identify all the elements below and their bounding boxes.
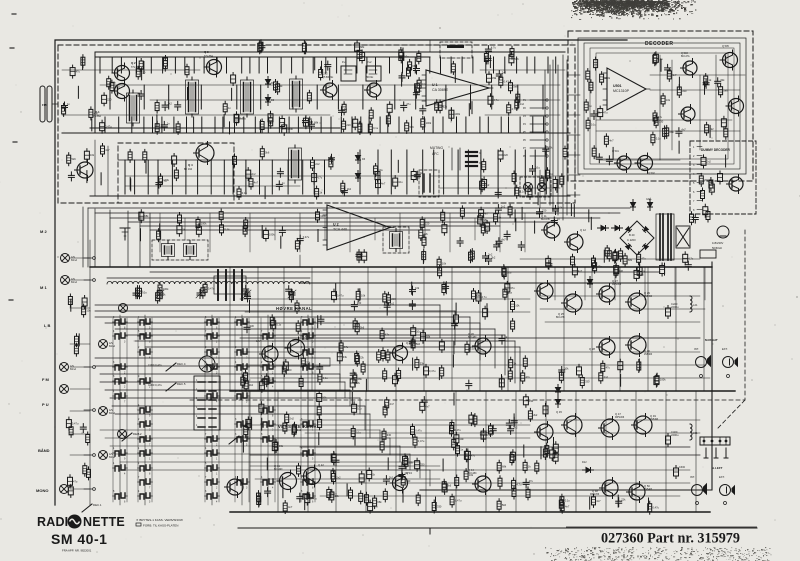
wire — [474, 218, 476, 240]
wire — [539, 170, 541, 208]
capacitor — [613, 252, 618, 260]
resistor — [295, 241, 299, 249]
capacitor — [606, 158, 612, 160]
wire — [94, 140, 96, 196]
svg-text:Fv2: Fv2 — [367, 60, 372, 64]
transistor Q2a T/S88A — [115, 66, 130, 81]
resistor — [667, 71, 671, 79]
capacitor — [376, 180, 381, 188]
resistor — [317, 407, 321, 415]
capacitor — [718, 174, 723, 182]
capacitor — [162, 104, 168, 106]
svg-text:5k6: 5k6 — [502, 503, 507, 507]
resistor — [101, 146, 105, 154]
resistor — [523, 462, 527, 470]
svg-text:10k: 10k — [564, 367, 569, 371]
capacitor — [265, 490, 271, 492]
IF transformer L2 — [186, 80, 199, 114]
transistor Q49 2N5496 — [634, 416, 652, 434]
resistor — [413, 437, 417, 445]
svg-text:2k2: 2k2 — [168, 102, 173, 106]
resistor — [411, 427, 415, 435]
resistor — [516, 94, 520, 102]
wire — [156, 115, 158, 127]
wire — [234, 117, 236, 133]
svg-text:BC148C: BC148C — [468, 337, 477, 339]
wire — [351, 117, 353, 133]
wire — [140, 229, 142, 241]
resistor — [665, 128, 669, 136]
wire — [249, 57, 251, 73]
capacitor — [403, 456, 408, 464]
capacitor — [485, 48, 491, 50]
svg-text:4n7: 4n7 — [508, 291, 513, 295]
switch contact — [115, 320, 119, 325]
svg-text:4,7u: 4,7u — [482, 295, 488, 299]
wire — [267, 117, 269, 133]
wire — [346, 484, 348, 496]
wire — [250, 465, 440, 467]
switch contact — [263, 379, 267, 384]
wire — [70, 299, 72, 311]
wire — [203, 57, 205, 73]
capacitor — [454, 315, 459, 323]
transistor Q4 BF194 — [196, 144, 214, 162]
capacitor — [303, 118, 308, 126]
wire — [300, 419, 700, 421]
resistor — [637, 362, 641, 370]
capacitor — [483, 309, 488, 317]
capacitor — [80, 426, 86, 428]
resistor — [584, 102, 588, 110]
capacitor — [246, 419, 251, 427]
wire — [242, 440, 244, 452]
capacitor — [616, 500, 622, 502]
wire — [223, 160, 225, 194]
capacitor — [572, 267, 577, 275]
resistor — [75, 336, 79, 344]
svg-text:68k: 68k — [377, 500, 382, 504]
capacitor — [496, 240, 502, 242]
resistor — [405, 123, 409, 131]
resistor — [560, 176, 564, 184]
decoder extra wires — [596, 119, 732, 121]
resistor — [244, 381, 248, 389]
wire — [317, 230, 319, 242]
svg-text:68k: 68k — [628, 258, 633, 262]
resistor — [594, 60, 598, 68]
transistor Q41 BC149C — [280, 473, 297, 490]
DEC arrows — [166, 363, 176, 371]
switch contact — [207, 334, 211, 339]
resistor — [507, 105, 511, 113]
resistor — [353, 321, 357, 329]
wire — [320, 495, 680, 497]
svg-text:33k: 33k — [720, 78, 725, 82]
wire — [467, 457, 469, 469]
svg-text:220: 220 — [542, 208, 547, 212]
wire — [261, 418, 263, 430]
capacitor — [339, 109, 345, 111]
resistor — [243, 226, 247, 234]
DUMMY DECODER dashed box — [690, 141, 756, 214]
svg-text:MONO: MONO — [36, 488, 48, 493]
resistor — [623, 256, 627, 264]
wire — [453, 342, 455, 354]
capacitor — [357, 50, 362, 58]
switch contact — [207, 320, 211, 325]
capacitor — [506, 422, 512, 424]
svg-text:33k: 33k — [308, 117, 313, 121]
wire — [118, 117, 120, 133]
svg-text:47u: 47u — [385, 333, 390, 337]
routing band4 lower left — [100, 429, 380, 431]
capacitor — [297, 496, 303, 498]
svg-text:4n7: 4n7 — [578, 269, 583, 273]
wire — [387, 458, 389, 470]
wire — [457, 150, 459, 194]
wire — [320, 117, 322, 133]
resistor — [383, 294, 387, 302]
svg-text:0,1u: 0,1u — [470, 346, 476, 350]
resistor — [329, 159, 333, 167]
svg-text:FM: FM — [42, 103, 47, 107]
switch contact — [207, 365, 211, 370]
capacitor — [312, 174, 317, 182]
svg-text:2k2: 2k2 — [347, 187, 352, 191]
wire — [335, 391, 337, 512]
mains plug — [717, 226, 729, 238]
resistor — [528, 189, 532, 197]
resistor — [386, 295, 390, 303]
resistor — [156, 293, 160, 301]
capacitor — [263, 231, 268, 239]
capacitor — [245, 295, 251, 297]
svg-text:Q 1: Q 1 — [95, 110, 100, 114]
wire — [325, 57, 327, 73]
svg-text:10k: 10k — [558, 206, 563, 210]
resistor — [452, 439, 456, 447]
resistor — [332, 455, 336, 463]
svg-text:M 2: M 2 — [40, 229, 47, 234]
resistor — [355, 324, 359, 332]
transistor Q5 — [323, 83, 337, 97]
wire — [605, 391, 607, 512]
wire — [465, 117, 467, 133]
capacitor — [442, 484, 447, 492]
wire — [479, 267, 481, 391]
wire — [573, 205, 575, 217]
wire — [315, 482, 690, 484]
wire — [617, 495, 619, 507]
capacitor — [457, 240, 463, 242]
amp main buses — [230, 390, 735, 392]
resistor — [442, 482, 446, 490]
capacitor — [283, 362, 288, 370]
svg-text:5k6: 5k6 — [410, 125, 415, 129]
wire — [422, 150, 424, 194]
svg-text:2k2: 2k2 — [485, 183, 490, 187]
svg-text:100k: 100k — [201, 222, 207, 226]
resistor — [359, 493, 363, 501]
resistor — [330, 492, 334, 500]
svg-text:115/230V: 115/230V — [712, 241, 724, 245]
wire — [249, 391, 251, 512]
wire — [487, 117, 489, 133]
resistor — [138, 288, 142, 296]
resistor — [510, 455, 514, 463]
resistor — [382, 431, 386, 439]
svg-text:Fv1: Fv1 — [342, 60, 347, 64]
wire — [429, 57, 431, 73]
wire — [563, 267, 565, 391]
wire — [186, 117, 188, 133]
wire — [504, 57, 506, 73]
switch contact — [140, 466, 144, 471]
svg-text:5k6: 5k6 — [265, 151, 270, 155]
wire — [375, 57, 377, 73]
svg-text:4n7: 4n7 — [240, 116, 245, 120]
capacitor — [350, 372, 356, 374]
capacitor — [177, 226, 182, 234]
resistor — [74, 346, 78, 354]
switch contact — [207, 480, 211, 485]
switch contact — [207, 451, 211, 456]
wire — [575, 391, 577, 512]
svg-text:Q 4: Q 4 — [188, 163, 193, 167]
resistor — [592, 497, 596, 505]
capacitor — [368, 503, 373, 511]
resistor — [385, 400, 389, 408]
transistor Q48 MPSU56 — [602, 480, 618, 496]
wire — [412, 358, 414, 370]
wire — [513, 414, 515, 426]
capacitor — [559, 369, 565, 371]
wire — [398, 117, 400, 133]
resistor — [374, 166, 378, 174]
svg-text:0,1u: 0,1u — [332, 492, 338, 496]
wire — [542, 85, 544, 109]
capacitor — [317, 394, 322, 402]
wire — [152, 117, 154, 133]
capacitor — [272, 443, 277, 451]
wire — [302, 57, 304, 73]
capacitor — [276, 183, 282, 185]
wire — [423, 117, 425, 133]
resistor — [601, 363, 605, 371]
resistor — [401, 477, 405, 485]
transformer L1 — [127, 93, 140, 123]
resistor — [455, 478, 459, 486]
capacitor — [487, 74, 492, 82]
resistor — [68, 297, 72, 305]
transistor Q29 2N5496 — [628, 293, 646, 311]
svg-text:0,47u: 0,47u — [429, 369, 436, 373]
resistor — [619, 251, 623, 259]
wire — [523, 445, 525, 457]
wire — [639, 263, 641, 275]
wire — [314, 58, 316, 70]
wire — [70, 433, 90, 435]
wire — [339, 267, 341, 391]
resistor — [512, 480, 516, 488]
wire — [145, 161, 147, 173]
resistor — [422, 237, 426, 245]
resistor — [523, 358, 527, 366]
wire — [524, 213, 526, 252]
svg-text:DECODER: DECODER — [645, 41, 674, 47]
wire — [359, 289, 361, 301]
capacitor — [469, 415, 474, 423]
wire — [210, 160, 212, 194]
wire — [305, 432, 700, 434]
left column wires — [89, 240, 91, 505]
switch contact — [115, 365, 119, 370]
wire — [288, 117, 290, 133]
resistor — [174, 170, 178, 178]
wire — [109, 85, 111, 109]
svg-text:220: 220 — [504, 153, 509, 157]
resistor — [637, 254, 641, 262]
resistor — [469, 252, 473, 260]
capacitor — [553, 208, 559, 210]
capacitor — [367, 471, 372, 479]
capacitor — [325, 64, 331, 66]
capacitor — [485, 57, 491, 59]
resistor — [450, 497, 454, 505]
wire — [214, 117, 216, 133]
wire — [78, 334, 80, 346]
wire — [300, 318, 302, 502]
switch contact — [303, 480, 307, 485]
wire — [174, 57, 176, 73]
capacitor — [360, 53, 365, 61]
wire — [161, 117, 163, 133]
capacitor — [449, 110, 454, 118]
resistor — [651, 135, 655, 143]
wire — [379, 117, 381, 133]
svg-text:MUTING: MUTING — [430, 146, 443, 150]
svg-text:68k: 68k — [502, 465, 507, 469]
resistor — [719, 87, 723, 95]
wire — [317, 316, 319, 328]
wire — [136, 57, 138, 73]
L107 dashed box — [419, 170, 439, 197]
resistor — [178, 215, 182, 223]
part number line — [566, 526, 757, 528]
resistor — [332, 474, 336, 482]
wire — [584, 267, 586, 300]
resistor — [450, 423, 454, 431]
resistor — [316, 212, 320, 220]
resistor — [511, 321, 515, 329]
wire — [258, 57, 260, 73]
transistor Q12 2N5496 — [567, 234, 583, 250]
capacitor — [721, 119, 726, 127]
resistor — [365, 495, 369, 503]
resistor — [515, 188, 519, 196]
resistor — [653, 55, 657, 63]
wire — [86, 171, 88, 183]
capacitor — [439, 342, 444, 350]
Fv2 filter — [366, 66, 381, 81]
wire — [567, 134, 580, 136]
resistor — [456, 446, 460, 454]
svg-text:0,47u: 0,47u — [303, 235, 310, 239]
wire — [395, 267, 397, 391]
band3 closing verticals — [329, 358, 331, 366]
wire — [143, 62, 145, 74]
svg-text:47u: 47u — [529, 479, 534, 483]
capacitor — [546, 258, 551, 266]
resistor — [220, 225, 224, 233]
wire — [397, 160, 399, 172]
resistor — [342, 104, 346, 112]
wire — [271, 160, 273, 194]
wire — [168, 85, 170, 109]
wire — [91, 119, 93, 131]
resistor — [677, 87, 681, 95]
wire — [240, 424, 530, 426]
wire — [329, 68, 331, 80]
capacitor — [546, 263, 552, 265]
transistor Q43 BC148C — [393, 476, 408, 491]
capacitor — [303, 120, 309, 122]
capacitor — [420, 108, 426, 110]
resistor — [69, 427, 73, 435]
switch contact — [237, 365, 241, 370]
capacitor — [685, 264, 691, 266]
resistor — [705, 125, 709, 133]
wire — [70, 257, 90, 259]
resistor — [421, 119, 425, 127]
wire — [674, 267, 676, 300]
wire — [588, 210, 590, 222]
resistor — [724, 129, 728, 137]
capacitor — [476, 293, 481, 301]
svg-text:10u: 10u — [398, 180, 403, 184]
wire — [302, 160, 304, 194]
wire — [453, 393, 455, 405]
wire — [283, 267, 285, 391]
transistor Q506 — [729, 99, 744, 114]
wire — [245, 437, 530, 439]
transistor Q50 2N5406 — [629, 484, 645, 500]
switch contact — [263, 437, 267, 442]
svg-text:Q 23: Q 23 — [406, 341, 412, 345]
wire — [70, 488, 90, 490]
capacitor — [387, 104, 392, 112]
svg-text:0,1u: 0,1u — [535, 166, 541, 170]
wire — [356, 57, 358, 73]
resistor — [383, 491, 387, 499]
right channel amp dashed border — [187, 230, 745, 400]
capacitor — [490, 428, 496, 430]
transistor Q47 MPSU06 — [601, 419, 619, 437]
capacitor — [352, 404, 357, 412]
resistor — [535, 463, 539, 471]
resistor — [201, 288, 205, 296]
svg-text:0,1u: 0,1u — [656, 137, 662, 141]
wire — [335, 284, 337, 296]
resistor — [512, 489, 516, 497]
FM tuner dashed box — [58, 45, 575, 203]
svg-text:C300 0,47u: C300 0,47u — [148, 363, 162, 367]
wire — [248, 318, 250, 502]
diode D10 — [588, 280, 593, 285]
svg-text:60mA: 60mA — [71, 259, 77, 262]
svg-text:47u: 47u — [597, 265, 602, 269]
